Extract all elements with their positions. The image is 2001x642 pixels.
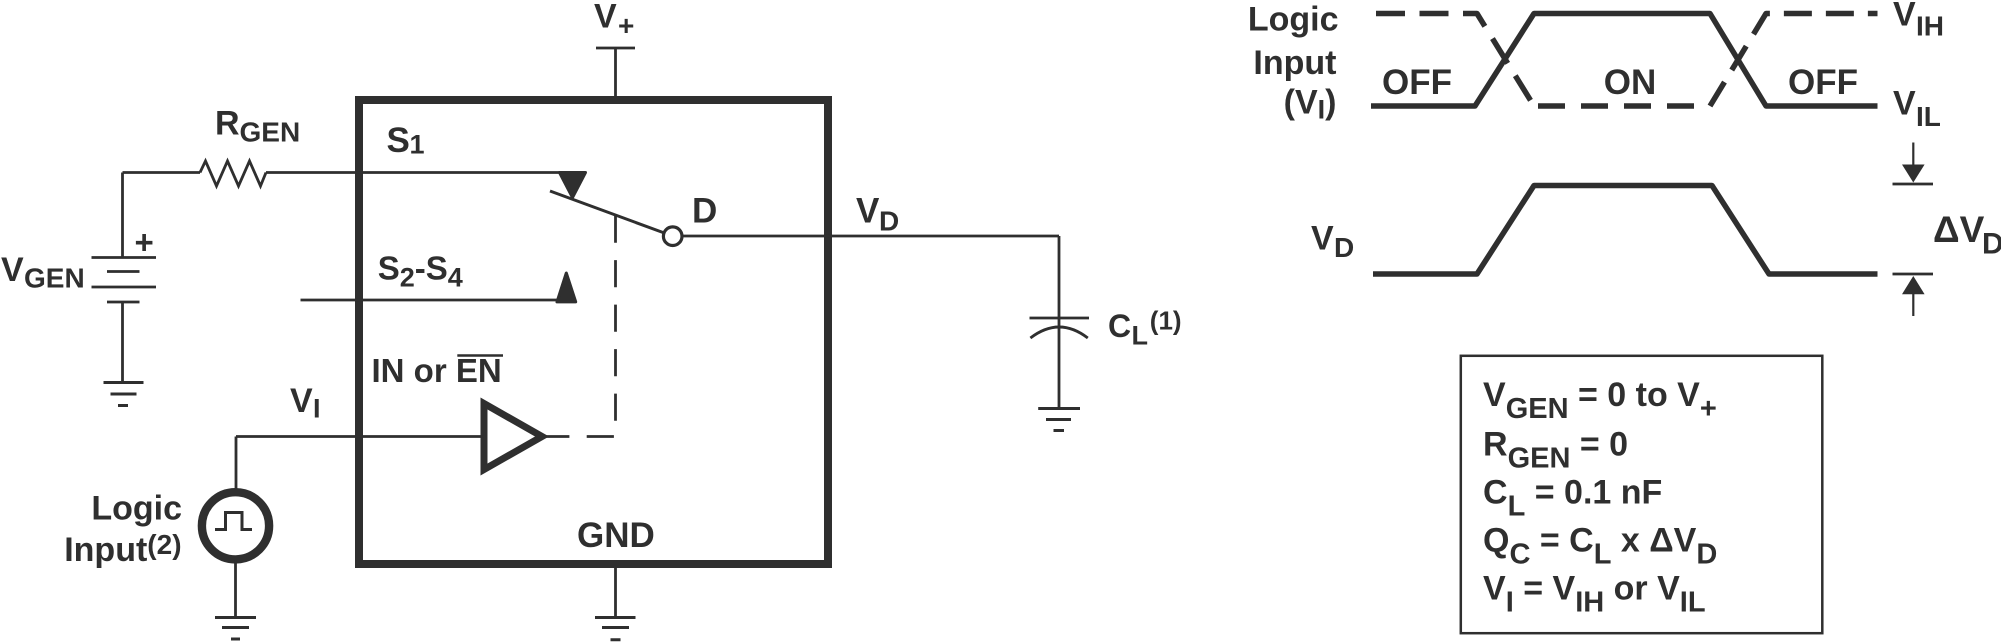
svg-text:R: R: [215, 104, 240, 142]
svg-text:(2): (2): [147, 529, 181, 560]
svg-text:GEN: GEN: [24, 262, 85, 293]
svg-text:V: V: [856, 192, 880, 231]
svg-text:GND: GND: [577, 516, 655, 555]
svg-text:1: 1: [410, 130, 425, 160]
svg-text:(VI): (VI): [1284, 84, 1337, 125]
svg-text:VGEN = 0 to V+: VGEN = 0 to V+: [1483, 376, 1717, 425]
svg-text:V: V: [1311, 220, 1334, 258]
svg-text:L: L: [1132, 321, 1149, 351]
svg-text:D: D: [879, 206, 899, 237]
svg-text:S2-S4: S2-S4: [378, 250, 463, 293]
svg-text:C: C: [1108, 308, 1131, 344]
svg-text:IL: IL: [1916, 101, 1941, 132]
svg-text:RGEN = 0: RGEN = 0: [1483, 426, 1628, 475]
svg-text:V: V: [1893, 0, 1916, 34]
svg-text:ON: ON: [1604, 63, 1657, 102]
svg-text:QC = CL x ΔVD: QC = CL x ΔVD: [1483, 522, 1717, 571]
svg-text:GEN: GEN: [240, 116, 301, 147]
svg-text:CL = 0.1 nF: CL = 0.1 nF: [1483, 474, 1662, 523]
svg-text:VI = VIH or VIL: VI = VIH or VIL: [1483, 570, 1706, 619]
svg-text:+: +: [618, 10, 634, 41]
svg-text:IN or EN: IN or EN: [372, 352, 502, 389]
svg-text:OFF: OFF: [1788, 63, 1858, 102]
svg-text:D: D: [1334, 232, 1354, 263]
svg-text:D: D: [1982, 228, 2001, 261]
svg-text:IH: IH: [1916, 11, 1944, 42]
svg-text:V: V: [1893, 85, 1916, 123]
svg-text:Input: Input: [64, 531, 147, 569]
svg-text:V: V: [594, 0, 617, 35]
svg-text:ΔV: ΔV: [1933, 209, 1985, 250]
svg-text:I: I: [313, 394, 321, 424]
svg-text:S: S: [387, 121, 410, 160]
svg-text:Logic: Logic: [1248, 0, 1339, 38]
svg-text:V: V: [1, 251, 24, 289]
svg-text:Logic: Logic: [91, 489, 182, 527]
svg-text:Input: Input: [1253, 44, 1336, 82]
svg-text:(1): (1): [1150, 305, 1182, 335]
svg-text:+: +: [135, 224, 154, 261]
svg-text:OFF: OFF: [1382, 63, 1452, 102]
svg-text:D: D: [692, 192, 717, 231]
svg-text:V: V: [290, 382, 313, 420]
